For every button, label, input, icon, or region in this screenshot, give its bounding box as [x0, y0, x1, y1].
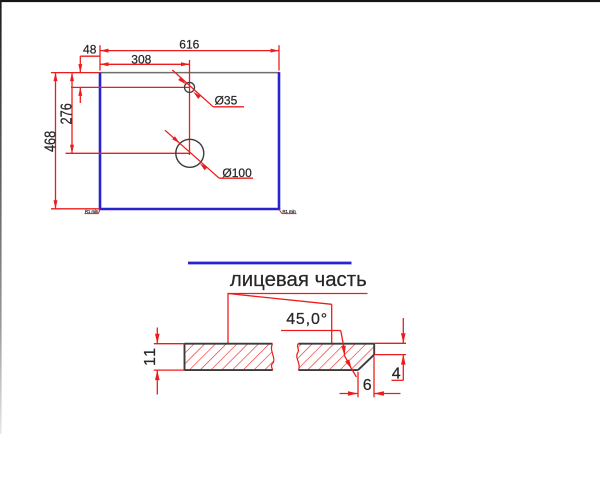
dimension 48: lower arrow — [79, 87, 81, 103]
panel bottom edge — [99, 208, 281, 211]
dimension 4: leader bar — [392, 379, 404, 381]
dimension 468: dimension line — [55, 73, 57, 209]
dimension 4: extension lines — [374, 342, 406, 344]
hole 100 center horizontal line — [66, 152, 190, 154]
right section piece hatch — [297, 344, 374, 370]
hole D35 leader — [172, 70, 213, 107]
left section piece hatch — [185, 344, 274, 370]
panel right edge — [278, 72, 281, 209]
dimension 11: extension lines — [154, 343, 185, 345]
panel left edge — [99, 73, 102, 209]
dimension 6: right arrow — [374, 393, 401, 395]
separator blue line — [188, 262, 352, 265]
svg-text:Ø100: Ø100 — [222, 166, 252, 180]
dimension 11: lower arrow — [156, 370, 158, 394]
svg-text:лицевая часть: лицевая часть — [230, 269, 367, 291]
right section piece outline — [298, 343, 374, 345]
dimension 11: upper arrow — [156, 328, 158, 344]
chamfer edge — [358, 355, 374, 371]
svg-text:48: 48 — [83, 43, 97, 57]
dimension 6: left arrow — [340, 393, 359, 395]
dimension 48: upper arrow — [79, 56, 81, 72]
svg-text:Ø35: Ø35 — [215, 94, 238, 108]
hole center vertical line — [189, 60, 191, 155]
dimension 4: upper arrow — [402, 318, 404, 343]
dimension 616: dimension line — [100, 50, 279, 52]
callout underline — [228, 293, 368, 295]
hole D35 — [185, 82, 195, 92]
dimension 276: dimension line — [71, 73, 73, 154]
svg-text:6: 6 — [363, 377, 372, 394]
bottom-right corner mark — [279, 209, 282, 213]
dimension 48: leader bar — [80, 55, 100, 57]
dimension 45.0deg: leader with arrows — [341, 331, 344, 345]
left scan border — [0, 0, 2, 434]
dimension 308: dimension line — [100, 63, 190, 65]
hole D100 leader — [165, 130, 219, 178]
hole D100 — [176, 139, 204, 167]
callout leader to right piece — [228, 294, 332, 305]
bottom-left corner mark — [99, 209, 101, 213]
svg-text:45,0°: 45,0° — [286, 311, 328, 328]
left section piece outline — [185, 343, 273, 345]
svg-text:276: 276 — [59, 103, 76, 124]
svg-text:616: 616 — [179, 37, 199, 51]
panel top edge (back) — [100, 72, 279, 74]
hole 35 center horizontal line — [71, 86, 190, 88]
callout leader to left piece — [227, 294, 229, 344]
svg-text:308: 308 — [131, 53, 151, 67]
dimension 45.0deg: underline — [281, 330, 341, 332]
dimension 6: extension lines — [357, 372, 359, 398]
top scan border — [0, 0, 600, 2]
dimension 4: lower arrow — [402, 355, 404, 381]
bottom edge extension line — [51, 208, 100, 210]
svg-text:4: 4 — [392, 365, 401, 382]
top edge extension line — [51, 72, 100, 74]
right piece break line — [297, 344, 299, 370]
dimension 616: extension lines — [99, 45, 101, 70]
svg-text:468: 468 — [42, 131, 59, 152]
left piece break line — [271, 344, 273, 370]
svg-text:R1 min: R1 min — [283, 209, 297, 214]
svg-text:R1 min: R1 min — [85, 209, 99, 214]
svg-text:11: 11 — [142, 348, 159, 366]
